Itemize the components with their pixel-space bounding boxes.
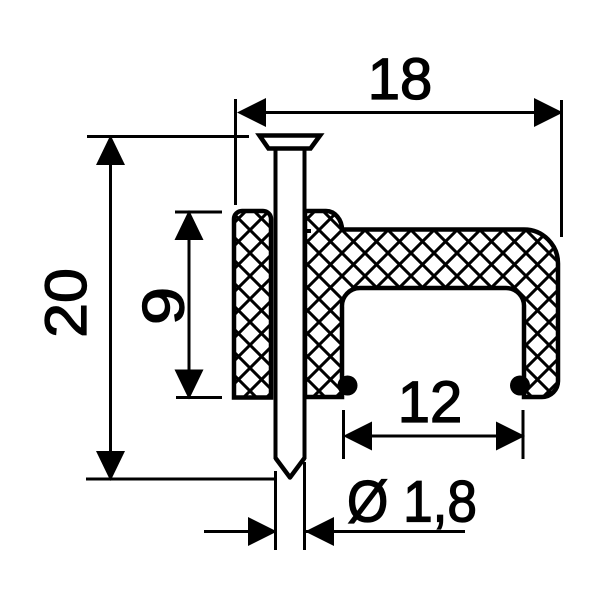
svg-text:20: 20 — [33, 268, 98, 338]
svg-text:9: 9 — [132, 287, 196, 325]
svg-text:12: 12 — [398, 370, 463, 435]
svg-text:Ø 1,8: Ø 1,8 — [347, 470, 477, 535]
svg-text:18: 18 — [368, 47, 433, 112]
